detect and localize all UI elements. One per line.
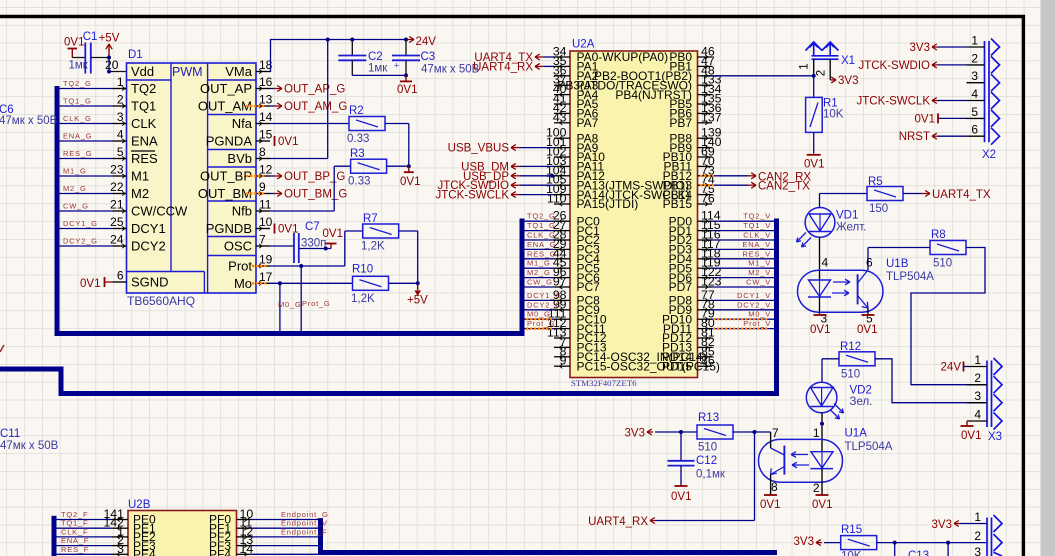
MCU U2A pin 119 PD5 bbox=[698, 267, 713, 269]
resistor R7 bbox=[363, 224, 399, 238]
LED VD1 bbox=[805, 208, 835, 238]
MCU U2A pin 77 PD8 bbox=[698, 299, 713, 301]
svg-text:PB15: PB15 bbox=[663, 197, 693, 211]
MCU U2A pin 112 PC11 bbox=[554, 328, 570, 330]
optocoupler U1B outline bbox=[798, 270, 884, 312]
svg-text:2: 2 bbox=[813, 481, 820, 495]
svg-text:4: 4 bbox=[971, 87, 978, 101]
wire/net DCY2_V from PD9 bbox=[712, 309, 774, 311]
power port 0V1 (R1) bbox=[807, 154, 821, 156]
svg-text:0V1: 0V1 bbox=[671, 491, 691, 503]
MCU U2A pin 109 PA14(JTCK-SWCLK) bbox=[554, 194, 570, 196]
resistor R10 bbox=[353, 276, 389, 290]
svg-text:DCY2: DCY2 bbox=[131, 239, 166, 254]
wire C1 to Vdd bbox=[91, 57, 109, 59]
svg-text:PE4: PE4 bbox=[133, 548, 156, 556]
svg-text:TQ1_V: TQ1_V bbox=[743, 221, 771, 230]
svg-text:PB7: PB7 bbox=[669, 116, 692, 130]
MCU U2A pin 45 PC5 bbox=[554, 267, 570, 269]
svg-text:C1: C1 bbox=[83, 31, 98, 43]
svg-text:Nfb: Nfb bbox=[232, 204, 252, 219]
svg-text:PD15: PD15 bbox=[662, 359, 692, 373]
MCU U2B pin 3 PE4 bbox=[112, 553, 128, 555]
svg-text:TQ2_V: TQ2_V bbox=[743, 212, 771, 221]
svg-text:TQ2_F: TQ2_F bbox=[61, 510, 88, 519]
svg-text:2: 2 bbox=[816, 70, 828, 76]
svg-text:OUT_BP: OUT_BP bbox=[200, 169, 252, 184]
MCU U2A pin 41 PA5 bbox=[554, 103, 570, 105]
svg-text:1: 1 bbox=[974, 353, 981, 367]
svg-text:0V1: 0V1 bbox=[857, 324, 877, 336]
svg-text:M1: M1 bbox=[131, 169, 149, 184]
svg-text:PF4: PF4 bbox=[209, 548, 231, 556]
svg-text:1,2K: 1,2K bbox=[351, 293, 375, 305]
svg-text:5: 5 bbox=[117, 145, 124, 159]
MCU U2A pin 97 PC7 bbox=[554, 286, 570, 288]
svg-text:TLP504A: TLP504A bbox=[886, 271, 934, 283]
svg-text:M0_G: M0_G bbox=[527, 310, 551, 319]
MCU U2A pin 43 PA7 bbox=[554, 122, 570, 124]
MCU U2A pin 122 PD6 bbox=[698, 277, 713, 279]
wire/net CLK_G to PC2 bbox=[524, 239, 554, 241]
svg-text:510: 510 bbox=[698, 442, 717, 454]
svg-text:150: 150 bbox=[869, 203, 888, 215]
svg-text:R12: R12 bbox=[840, 341, 861, 353]
svg-text:R13: R13 bbox=[698, 412, 719, 424]
wire/net DCY2_G to PC9 bbox=[524, 309, 554, 311]
svg-text:0.33: 0.33 bbox=[348, 176, 370, 188]
svg-text:NRST: NRST bbox=[899, 131, 930, 143]
wire R8 to X3 pin2 bbox=[911, 248, 987, 385]
resistor R15 bbox=[841, 536, 877, 550]
MCU U2A pin 101 PA9 bbox=[554, 147, 570, 149]
svg-text:Зел.: Зел. bbox=[850, 396, 873, 408]
IC D1 outline bbox=[127, 63, 257, 293]
MCU U2A pin 47 PB1 bbox=[698, 65, 713, 67]
MCU U2B pin 12 PF2 bbox=[237, 536, 253, 538]
warning marker OUT_AM bbox=[246, 105, 266, 107]
svg-text:1: 1 bbox=[799, 63, 811, 69]
wire/net RES_G to PC4 bbox=[524, 258, 554, 260]
MCU U2A pin 73 PB12 bbox=[698, 175, 713, 177]
svg-text:0,1мк: 0,1мк bbox=[696, 469, 726, 481]
svg-text:1мк: 1мк bbox=[69, 60, 89, 72]
MCU U2A pin 115 PD1 bbox=[698, 230, 713, 232]
svg-text:ENA_V: ENA_V bbox=[742, 240, 771, 249]
port UART4_TX (R5) bbox=[903, 193, 922, 195]
MCU U2B pin 2 PE3 bbox=[112, 545, 128, 547]
svg-text:5: 5 bbox=[971, 105, 978, 119]
svg-text:USB_VBUS: USB_VBUS bbox=[448, 143, 510, 155]
svg-text:X3: X3 bbox=[988, 431, 1002, 443]
port OUT_AM_G bbox=[270, 105, 274, 107]
svg-text:OUT_AM: OUT_AM bbox=[198, 99, 252, 114]
svg-text:76: 76 bbox=[701, 192, 715, 206]
svg-text:Prot_V: Prot_V bbox=[743, 319, 771, 328]
wire/net CLK_V from PD2 bbox=[712, 239, 774, 241]
svg-text:0V1: 0V1 bbox=[810, 324, 830, 336]
svg-text:M2: M2 bbox=[131, 186, 149, 201]
svg-text:0V1: 0V1 bbox=[64, 37, 84, 49]
svg-text:C2: C2 bbox=[368, 51, 383, 63]
svg-text:10K: 10K bbox=[823, 109, 844, 121]
svg-text:JTCK-SWCLK: JTCK-SWCLK bbox=[857, 96, 931, 108]
IC D1 internal dividers bbox=[170, 63, 172, 272]
svg-text:3V3: 3V3 bbox=[910, 42, 930, 54]
wire/net M2_V from PD6 bbox=[712, 277, 774, 279]
IC D1 pin 7 OSC bbox=[256, 245, 270, 247]
svg-text:OUT_AP_G: OUT_AP_G bbox=[284, 84, 345, 96]
MCU U2A pin 35 PA1 bbox=[554, 65, 570, 67]
MCU U2A pin 34 PA0-WKUP(PA0) bbox=[554, 56, 570, 58]
MCU U2A pin 75 PB14 bbox=[698, 194, 713, 196]
svg-text:Nfa: Nfa bbox=[232, 116, 253, 131]
wire R1 to 0V1 bbox=[813, 132, 815, 153]
MCU U2A pin 137 PB7 bbox=[698, 122, 713, 124]
svg-text:R8: R8 bbox=[931, 229, 946, 241]
svg-text:RES_G: RES_G bbox=[527, 249, 556, 258]
svg-text:ENA_G: ENA_G bbox=[527, 240, 556, 249]
IC D1 pin 8 BVb bbox=[256, 158, 270, 160]
wire/net M2_G to PC6 bbox=[524, 277, 554, 279]
bus G drop to U2A PC pins bbox=[520, 219, 525, 337]
port OUT_BM_G bbox=[270, 193, 274, 195]
svg-text:17: 17 bbox=[259, 270, 273, 284]
svg-text:U1B: U1B bbox=[886, 258, 909, 270]
svg-text:Endpoint_G: Endpoint_G bbox=[281, 510, 329, 519]
connector X1 pin 1 bbox=[813, 59, 815, 76]
optocoupler U1A transistor bbox=[783, 446, 785, 475]
resistor R13 bbox=[697, 425, 733, 439]
svg-text:TQ2: TQ2 bbox=[131, 81, 156, 96]
wire R3 to junction bbox=[387, 165, 409, 167]
wire/net Prot_G to PC11 bbox=[524, 328, 554, 330]
svg-text:3V3: 3V3 bbox=[932, 519, 952, 531]
svg-text:Vdd: Vdd bbox=[131, 64, 154, 79]
MCU U2B pin 10 PF0 bbox=[237, 519, 253, 521]
svg-text:Prot_G: Prot_G bbox=[302, 299, 331, 308]
svg-text:0V1: 0V1 bbox=[80, 278, 100, 290]
IC D1 pin 11 Nfb bbox=[256, 210, 270, 212]
svg-text:VD2: VD2 bbox=[850, 385, 872, 397]
svg-text:OUT_BM: OUT_BM bbox=[198, 186, 252, 201]
svg-text:11: 11 bbox=[259, 198, 272, 212]
wire/net M1_V from PD5 bbox=[712, 267, 774, 269]
resistor R2 bbox=[349, 117, 385, 131]
svg-text:+5V: +5V bbox=[407, 295, 428, 307]
svg-text:RES_V: RES_V bbox=[742, 249, 771, 258]
svg-text:4: 4 bbox=[974, 408, 981, 422]
IC D1 pin 4 ENA bbox=[113, 140, 127, 142]
svg-text:U2B: U2B bbox=[128, 499, 151, 511]
power port 0V1 (U1A pin8) bbox=[764, 494, 777, 496]
svg-text:0V1: 0V1 bbox=[397, 84, 417, 96]
svg-text:DCY2_G: DCY2_G bbox=[527, 300, 562, 309]
svg-text:Endpoint_F: Endpoint_F bbox=[281, 527, 327, 536]
port UART4_RX (bottom) bbox=[650, 520, 656, 522]
svg-text:PD7: PD7 bbox=[669, 280, 693, 294]
MCU U2A pin 134 PB4(NJTRST) bbox=[698, 94, 713, 96]
svg-text:C13: C13 bbox=[908, 550, 929, 556]
svg-text:C7: C7 bbox=[305, 221, 320, 233]
svg-text:R15: R15 bbox=[841, 524, 862, 536]
svg-text:3: 3 bbox=[971, 69, 978, 83]
svg-text:1: 1 bbox=[974, 510, 981, 524]
svg-text:0V1: 0V1 bbox=[400, 176, 420, 188]
wire R7 to +5V bbox=[399, 230, 418, 232]
MCU U2A pin 80 PD11 bbox=[698, 328, 713, 330]
wire VMa to 24V rail bbox=[270, 40, 406, 72]
IC D1 pin 17 Mo bbox=[256, 282, 270, 284]
power port 0V1 (U1B pin3) bbox=[814, 314, 827, 316]
port OUT_BP_G bbox=[270, 175, 274, 177]
connector X2 bbox=[984, 41, 986, 142]
svg-text:M2_G: M2_G bbox=[63, 184, 87, 193]
svg-text:137: 137 bbox=[701, 110, 722, 124]
MCU U2A pin 44 PC4 bbox=[554, 258, 570, 260]
power port 0V1 (U1B pin5) bbox=[862, 314, 875, 316]
svg-text:CW_G: CW_G bbox=[527, 278, 553, 287]
svg-text:14: 14 bbox=[259, 110, 273, 124]
wire R2 to junction bbox=[385, 123, 409, 125]
svg-text:0V1: 0V1 bbox=[961, 430, 981, 442]
MCU U2A pin 46 PB0 bbox=[698, 56, 713, 58]
power port 0V1 (C7) bbox=[330, 244, 332, 249]
svg-text:JTCK-SWDIO: JTCK-SWDIO bbox=[858, 60, 930, 72]
warning marker OUT_BP bbox=[246, 175, 266, 177]
MCU U2A pin 135 PB5 bbox=[698, 103, 713, 105]
svg-text:RES_G: RES_G bbox=[63, 149, 92, 158]
wire/net M1_G to PC5 bbox=[524, 267, 554, 269]
MCU U2A pin 86 PD15 bbox=[698, 365, 713, 367]
svg-text:1: 1 bbox=[813, 426, 820, 440]
svg-text:R7: R7 bbox=[363, 213, 378, 225]
svg-text:TQ2_G: TQ2_G bbox=[63, 79, 92, 88]
capacitor C2 bbox=[351, 40, 353, 56]
wire/net TQ2_V from PD0 bbox=[712, 220, 774, 222]
MCU U2A outline bbox=[570, 51, 698, 378]
port 3V3 (X4 pin1) bbox=[954, 523, 960, 525]
svg-text:22: 22 bbox=[110, 180, 124, 194]
svg-text:21: 21 bbox=[110, 198, 124, 212]
wire/net Prot_V from PD11 bbox=[712, 328, 774, 330]
MCU U2A pin 114 PD0 bbox=[698, 220, 713, 222]
svg-text:TLP504A: TLP504A bbox=[845, 441, 893, 453]
connector X1 bbox=[806, 42, 822, 51]
IC D1 pin 23 M1 bbox=[113, 175, 127, 177]
svg-text:CLK_G: CLK_G bbox=[63, 114, 92, 123]
svg-text:24V: 24V bbox=[416, 36, 437, 48]
MCU U2A pin 104 PA12 bbox=[554, 175, 570, 177]
svg-text:43: 43 bbox=[553, 110, 567, 124]
wire/net DCY1_V from PD8 bbox=[712, 299, 774, 301]
svg-text:STM32F407ZET6: STM32F407ZET6 bbox=[571, 378, 637, 388]
svg-text:TB6560AHQ: TB6560AHQ bbox=[127, 294, 195, 308]
capacitor C1 bbox=[84, 43, 86, 74]
svg-text:3V3: 3V3 bbox=[838, 75, 858, 87]
port OUT_AP_G bbox=[270, 88, 274, 90]
MCU U2A pin 96 PC6 bbox=[554, 277, 570, 279]
power port 0V1 (R2/R3) bbox=[408, 166, 410, 172]
wire Nfb to R3 bbox=[270, 210, 334, 212]
svg-text:2: 2 bbox=[974, 371, 981, 385]
svg-text:R5: R5 bbox=[868, 176, 883, 188]
svg-text:CLK_V: CLK_V bbox=[743, 231, 771, 240]
svg-text:47мк x 50В: 47мк x 50В bbox=[0, 115, 58, 127]
MCU U2A pin 133 PB3(JTDO/TRACESWO) bbox=[698, 84, 713, 86]
wire VD1 to U1B pin4 bbox=[819, 237, 821, 280]
svg-text:U2A: U2A bbox=[572, 39, 595, 51]
svg-text:510: 510 bbox=[841, 369, 860, 381]
MCU U2A pin 102 PA10 bbox=[554, 156, 570, 158]
svg-text:PA7: PA7 bbox=[577, 116, 599, 130]
IC D1 pin 22 M2 bbox=[113, 193, 127, 195]
MCU U2B pin 11 PF1 bbox=[237, 527, 253, 529]
svg-text:DCY1_G: DCY1_G bbox=[527, 291, 562, 300]
svg-text:M0_G: M0_G bbox=[278, 300, 302, 309]
warning marker Prot pin bbox=[252, 265, 268, 267]
svg-text:15: 15 bbox=[259, 128, 273, 142]
svg-text:M2_G: M2_G bbox=[527, 268, 551, 277]
wire/net TQ2_G to PC0 bbox=[524, 220, 554, 222]
svg-text:0V1: 0V1 bbox=[278, 136, 298, 148]
svg-text:RES_F: RES_F bbox=[61, 545, 89, 554]
svg-text:0V1: 0V1 bbox=[812, 499, 832, 511]
MCU U2A pin 8 PC14-OSC32_IN(PC14) bbox=[554, 356, 570, 358]
svg-text:12: 12 bbox=[259, 163, 273, 177]
svg-text:+5V: +5V bbox=[99, 33, 120, 45]
svg-text:6: 6 bbox=[117, 269, 124, 283]
svg-text:0V1: 0V1 bbox=[915, 113, 935, 125]
svg-text:10: 10 bbox=[259, 215, 273, 229]
power port 0V1 (PGNDA) bbox=[274, 136, 276, 146]
svg-text:110: 110 bbox=[547, 192, 567, 206]
IC D1 pin 9 OUT_BM bbox=[256, 193, 270, 195]
port CAN2_TX bbox=[712, 184, 748, 186]
MCU U2A pin 123 PD7 bbox=[698, 286, 713, 288]
wire Mo net bbox=[270, 282, 353, 284]
svg-text:Mo: Mo bbox=[234, 276, 252, 291]
power port 0V1 (PGNDB) bbox=[274, 224, 276, 234]
svg-text:CW/CCW: CW/CCW bbox=[131, 204, 188, 219]
svg-text:UART4_RX: UART4_RX bbox=[473, 61, 533, 73]
svg-text:9: 9 bbox=[560, 354, 567, 368]
svg-text:JTCK-SWCLK: JTCK-SWCLK bbox=[436, 190, 510, 202]
IC D1 pin 14 Nfa bbox=[256, 123, 270, 125]
IC D1 pin 19 Prot bbox=[256, 265, 270, 267]
IC D1 pin 1 TQ2 bbox=[113, 88, 127, 90]
MCU U2A pin 9 PC15-OSC32_OUT(PC15) bbox=[554, 365, 570, 367]
svg-text:25: 25 bbox=[110, 215, 124, 229]
svg-text:CAN2_TX: CAN2_TX bbox=[758, 181, 810, 193]
wire/net CW_V from PD7 bbox=[712, 286, 774, 288]
wire C7 to 0V1 bbox=[299, 248, 331, 250]
power port 0V1 (X3 pin4) bbox=[966, 421, 968, 426]
svg-text:R10: R10 bbox=[352, 264, 373, 276]
wire/net TQ1_V from PD1 bbox=[712, 230, 774, 232]
svg-text:TQ1: TQ1 bbox=[131, 99, 156, 114]
svg-text:47мк x 50В: 47мк x 50В bbox=[0, 440, 59, 452]
IC D1 pin 18 VMa bbox=[256, 71, 270, 73]
bus V (U2A right PD pins) bbox=[774, 219, 779, 397]
port CAN2_RX bbox=[712, 175, 748, 177]
left edge cut label fragment bbox=[0, 345, 4, 352]
svg-text:0.33: 0.33 bbox=[347, 133, 369, 145]
svg-text:3V3: 3V3 bbox=[625, 428, 645, 440]
MCU U2A pin 110 PA15(JTDI) bbox=[554, 203, 570, 205]
svg-text:510: 510 bbox=[933, 258, 952, 270]
MCU U2A pin 99 PC9 bbox=[554, 309, 570, 311]
MCU U2A pin 140 PB9 bbox=[698, 147, 713, 149]
optocoupler U1B transistor bbox=[857, 274, 859, 304]
MCU U2A pin 139 PB8 bbox=[698, 137, 713, 139]
svg-text:DCY2_V: DCY2_V bbox=[737, 300, 771, 309]
IC D1 pin 16 OUT_AP bbox=[256, 88, 270, 90]
svg-text:3: 3 bbox=[974, 545, 981, 556]
svg-text:RES: RES bbox=[131, 151, 158, 166]
svg-text:TQ1_G: TQ1_G bbox=[63, 97, 92, 106]
svg-text:4: 4 bbox=[117, 128, 124, 142]
svg-text:ENA: ENA bbox=[131, 134, 158, 149]
svg-text:0V1: 0V1 bbox=[760, 499, 780, 511]
power port 24V bbox=[404, 38, 408, 42]
svg-text:PC7: PC7 bbox=[577, 280, 601, 294]
IC D1 pin 5 RES bbox=[113, 158, 127, 160]
IC D1 pin 6 SGND bbox=[113, 281, 127, 283]
svg-text:PWM: PWM bbox=[172, 65, 203, 79]
port 3V3 (X1 pin2) bbox=[830, 79, 836, 81]
MCU U2A pin 103 PA11 bbox=[554, 165, 570, 167]
svg-text:DCY2_G: DCY2_G bbox=[63, 237, 98, 246]
svg-text:47мк x 50В: 47мк x 50В bbox=[421, 64, 480, 76]
svg-text:M1_G: M1_G bbox=[63, 167, 87, 176]
svg-text:3V3: 3V3 bbox=[794, 536, 814, 548]
svg-text:3: 3 bbox=[117, 542, 124, 556]
svg-text:86: 86 bbox=[701, 354, 715, 368]
svg-text:1,2K: 1,2K bbox=[361, 241, 385, 253]
MCU U2B pin 141 PE0 bbox=[112, 519, 128, 521]
svg-text:VD1: VD1 bbox=[836, 210, 858, 222]
svg-text:0V1: 0V1 bbox=[804, 159, 824, 171]
MCU U2A pin 111 PC10 bbox=[554, 318, 570, 320]
svg-text:DCY1_V: DCY1_V bbox=[737, 291, 771, 300]
connector X3 bbox=[986, 361, 988, 428]
svg-text:97: 97 bbox=[553, 275, 567, 289]
IC D1 pin 10 PGNDB bbox=[256, 228, 270, 230]
svg-text:ENA_F: ENA_F bbox=[61, 536, 89, 545]
svg-text:UART4_TX: UART4_TX bbox=[932, 189, 991, 201]
svg-text:BVb: BVb bbox=[227, 151, 252, 166]
svg-text:UART4_RX: UART4_RX bbox=[588, 516, 648, 528]
svg-text:X1: X1 bbox=[841, 55, 855, 67]
MCU U2A pin 36 PA2 bbox=[554, 75, 570, 77]
svg-text:U1A: U1A bbox=[845, 428, 868, 440]
svg-text:14: 14 bbox=[240, 542, 254, 556]
capacitor C12 bbox=[680, 432, 682, 461]
svg-text:OUT_AM_G: OUT_AM_G bbox=[284, 101, 347, 113]
wire/net ENA_G to PC3 bbox=[524, 248, 554, 250]
wire/net TQ1_G to PC1 bbox=[524, 230, 554, 232]
svg-text:R3: R3 bbox=[350, 148, 365, 160]
svg-text:13: 13 bbox=[259, 93, 273, 107]
MCU U2B outline bbox=[128, 511, 237, 556]
MCU U2A pin 27 PC1 bbox=[554, 230, 570, 232]
svg-text:C12: C12 bbox=[696, 455, 717, 467]
svg-text:24: 24 bbox=[110, 233, 124, 247]
MCU U2A pin 70 PB11 bbox=[698, 165, 713, 167]
svg-text:0V1: 0V1 bbox=[323, 228, 343, 240]
MCU U2A pin 40 PA4 bbox=[554, 94, 570, 96]
